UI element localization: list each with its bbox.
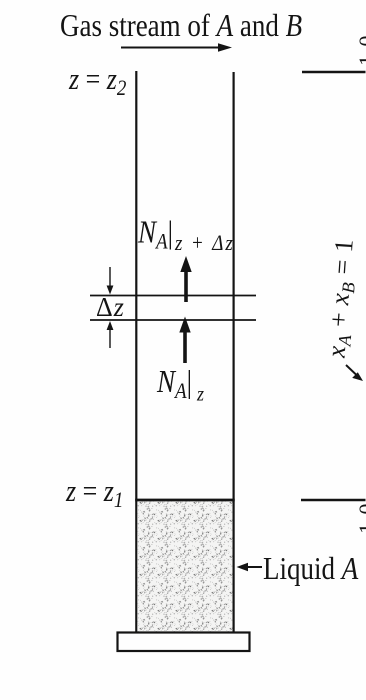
cropped graph top axis line (302, 71, 366, 74)
svg-text:1.0: 1.0 (354, 502, 366, 534)
dz upper pointer arrow (107, 267, 114, 295)
svg-text:Liquid A: Liquid A (263, 552, 359, 587)
cropped graph bottom axis line (301, 499, 366, 502)
svg-text:Gas stream of A and B: Gas stream of A and B (60, 9, 302, 44)
svg-text:NA|z + Δz: NA|z + Δz (137, 216, 235, 256)
tube left wall (135, 71, 137, 632)
shell upper boundary line (90, 295, 256, 297)
base stand (118, 633, 250, 652)
liquid label arrow (237, 563, 263, 572)
liquid body stipple (137, 502, 232, 632)
flux arrow lower NA at z (179, 317, 190, 364)
liquid surface line (135, 499, 235, 502)
svg-text:1.0: 1.0 (354, 34, 366, 66)
tube right wall (233, 72, 235, 632)
shell lower boundary line (90, 319, 256, 321)
svg-text:z = z2: z = z2 (68, 63, 126, 100)
svg-text:Δz: Δz (96, 291, 125, 322)
title arrow (121, 43, 232, 51)
flux arrow upper NA at z+dz (180, 256, 191, 302)
svg-text:NA|z: NA|z (156, 365, 204, 406)
pointer arrow to profile (346, 365, 363, 381)
dz lower pointer arrow (107, 321, 114, 348)
svg-text:xA + xB = 1: xA + xB = 1 (321, 238, 361, 360)
svg-text:z = z1: z = z1 (65, 475, 123, 512)
